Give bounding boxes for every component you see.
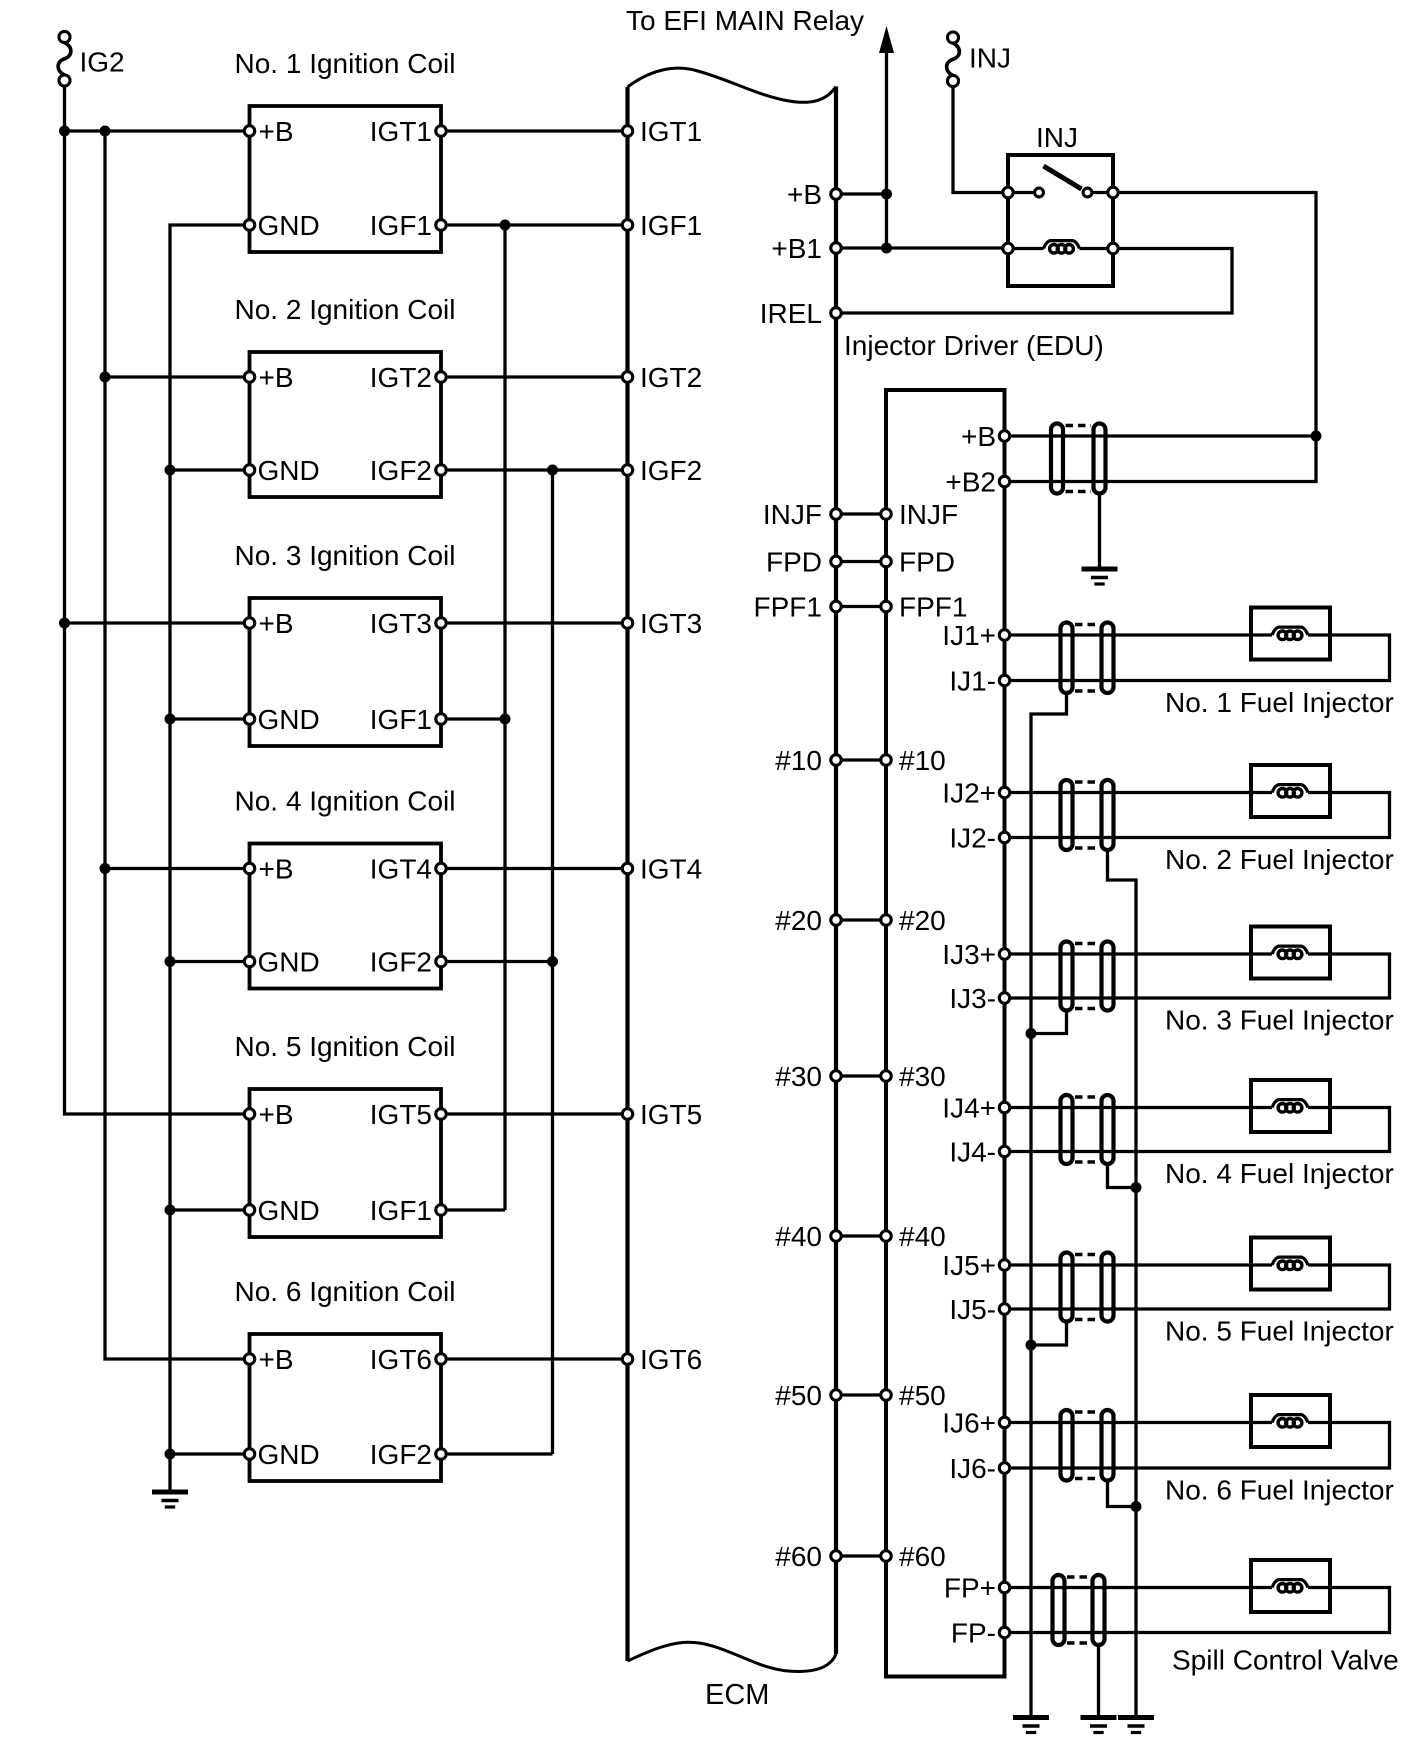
svg-text:IJ6+: IJ6+ — [942, 1408, 996, 1439]
wire ECM #10 to EDU — [836, 758, 886, 761]
node EDU pin FPF1 — [881, 592, 968, 623]
shielded cable for +B/+B2 — [1051, 424, 1106, 494]
svg-text:INJF: INJF — [763, 499, 822, 530]
svg-text:IGT5: IGT5 — [640, 1099, 702, 1130]
svg-text:+B: +B — [961, 421, 996, 452]
svg-text:+B1: +B1 — [771, 233, 822, 264]
node ECM pin #60 — [775, 1541, 841, 1572]
wire IGF2 coil No.6 to bus — [441, 1452, 553, 1455]
svg-text:#50: #50 — [899, 1380, 946, 1411]
node ECM pin #10 — [775, 745, 841, 776]
ignition coil No.1 box — [234, 48, 455, 252]
ground shield drain right — [1118, 1718, 1154, 1733]
svg-text:#10: #10 — [775, 745, 822, 776]
node EDU pin #40 — [881, 1221, 946, 1252]
shielded cable for IJ3+/IJ3- — [1061, 942, 1114, 1011]
junction dots +B/+B1 — [881, 189, 892, 254]
wire +B to No.3 coil — [65, 621, 250, 624]
wire IGF2 coil No.2 to ECM — [441, 468, 628, 471]
node EDU pin #20 — [881, 905, 946, 936]
wire IGF1 coil No.3 to bus — [441, 717, 505, 720]
svg-text:IREL: IREL — [760, 298, 822, 329]
fuel injector No.1 (No. 1 Fuel Injector) — [1165, 608, 1394, 719]
wire ECM FPF1 to EDU — [836, 605, 886, 608]
svg-text:+B2: +B2 — [945, 467, 996, 498]
node ECM pin IGT4 — [622, 854, 702, 885]
wire loop EDU IJ5+/IJ5- through fuel injector No.5 — [1005, 1263, 1273, 1266]
relay INJ — [1003, 122, 1118, 286]
wire IGT5 from coil No.5 to ECM — [441, 1112, 628, 1115]
svg-text:#50: #50 — [775, 1380, 822, 1411]
svg-text:IGF2: IGF2 — [640, 455, 702, 486]
node EDU pin FPD — [881, 547, 955, 578]
svg-text:IJ4+: IJ4+ — [942, 1093, 996, 1124]
wire IG2 bus A to No.1/3/5 coils — [65, 86, 250, 1114]
svg-text:ECM: ECM — [705, 1679, 769, 1711]
wire loop EDU IJ4+/IJ4- through fuel injector No.4 — [1005, 1106, 1273, 1109]
svg-text:+B: +B — [259, 1099, 294, 1130]
svg-text:No. 6 Fuel Injector: No. 6 Fuel Injector — [1165, 1475, 1394, 1506]
wire shield drain IJ4+ pair — [1108, 1164, 1137, 1188]
wire ECM #60 to EDU — [836, 1554, 886, 1557]
fuel injector No.2 (No. 2 Fuel Injector) — [1165, 765, 1394, 875]
node EDU pin #10 — [881, 745, 946, 776]
svg-text:IGF1: IGF1 — [640, 210, 702, 241]
svg-text:IGT3: IGT3 — [370, 608, 432, 639]
node ECM pin IGT5 — [622, 1099, 702, 1130]
node ECM pin IGF2 — [622, 455, 702, 486]
node ECM pin #30 — [775, 1061, 841, 1092]
svg-text:IGT1: IGT1 — [640, 116, 702, 147]
svg-text:IGF2: IGF2 — [370, 1439, 432, 1470]
wire loop EDU IJ1+/IJ1- through fuel injector No.1 — [1005, 633, 1273, 636]
ignition coil No.6 box — [234, 1276, 455, 1481]
svg-text:#10: #10 — [899, 745, 946, 776]
svg-text:INJF: INJF — [899, 499, 958, 530]
wire relay switch output down right side — [1005, 193, 1317, 482]
svg-text:IGT4: IGT4 — [640, 854, 702, 885]
wire GND of No.4 coil to GND bus — [170, 960, 250, 963]
fuel injector No.4 (No. 4 Fuel Injector) — [1165, 1080, 1394, 1189]
svg-text:IJ4-: IJ4- — [949, 1137, 996, 1168]
svg-text:GND: GND — [258, 947, 320, 978]
node ECM pin IGT3 — [622, 608, 702, 639]
svg-text:IGF1: IGF1 — [370, 1195, 432, 1226]
node EDU pin IJ3+ — [942, 939, 1009, 970]
svg-text:No. 2 Ignition Coil: No. 2 Ignition Coil — [234, 294, 455, 325]
shielded cable for IJ4+/IJ4- — [1061, 1095, 1114, 1164]
fuel injector No.5 (No. 5 Fuel Injector) — [1165, 1238, 1394, 1347]
wire GND of No.2 coil to GND bus — [170, 468, 250, 471]
node ECM pin FPF1 — [754, 592, 842, 623]
wire ECM FPD to EDU — [836, 560, 886, 563]
svg-text:+B: +B — [259, 608, 294, 639]
node EDU pin #50 — [881, 1380, 946, 1411]
node EDU pin IJ6+ — [942, 1408, 1009, 1439]
svg-text:IG2: IG2 — [80, 47, 125, 78]
svg-text:No. 1 Fuel Injector: No. 1 Fuel Injector — [1165, 687, 1394, 718]
node ECM pin IGT6 — [622, 1344, 702, 1375]
wire IGT3 from coil No.3 to ECM — [441, 621, 628, 624]
wire loop EDU IJ2+/IJ2- through fuel injector No.2 — [1005, 791, 1273, 794]
svg-text:FP+: FP+ — [944, 1573, 996, 1604]
svg-text:GND: GND — [258, 704, 320, 735]
svg-text:IGF1: IGF1 — [370, 704, 432, 735]
svg-text:FP-: FP- — [951, 1618, 996, 1649]
node ECM pin IREL — [760, 298, 841, 329]
node EDU pin IJ2+ — [942, 778, 1009, 809]
svg-text:To EFI MAIN Relay: To EFI MAIN Relay — [626, 5, 864, 36]
svg-text:No. 5 Ignition Coil: No. 5 Ignition Coil — [234, 1031, 455, 1062]
node EDU pin IJ5+ — [942, 1250, 1009, 1281]
svg-text:IJ2+: IJ2+ — [942, 778, 996, 809]
fuel injector No.6 (No. 6 Fuel Injector) — [1165, 1395, 1394, 1506]
wire IGF1 coil No.1 to ECM — [441, 223, 628, 226]
junction dots on shield drain buses — [1026, 1028, 1142, 1512]
shielded cable for IJ2+/IJ2- — [1061, 780, 1114, 850]
node EDU pin IJ4+ — [942, 1093, 1009, 1124]
node EDU pin IJ2- — [949, 823, 1009, 854]
wire shield drain IJ6+ pair — [1108, 1481, 1137, 1507]
svg-text:IJ3-: IJ3- — [949, 983, 996, 1014]
ground shield drain left — [1013, 1718, 1049, 1733]
svg-text:GND: GND — [258, 210, 320, 241]
ignition coil No.4 box — [234, 786, 455, 989]
ECM body (torn-edge band) — [628, 68, 837, 1711]
wire shield drain IJ5+ pair — [1031, 1322, 1067, 1346]
node ECM pin FPD — [766, 547, 841, 578]
node EDU pin +B — [961, 421, 1010, 452]
wire IGT6 from coil No.6 to ECM — [441, 1357, 628, 1360]
svg-text:GND: GND — [258, 1195, 320, 1226]
svg-text:#20: #20 — [899, 905, 946, 936]
svg-text:IGT3: IGT3 — [640, 608, 702, 639]
svg-text:No. 4 Ignition Coil: No. 4 Ignition Coil — [234, 786, 455, 817]
spill control valve (Spill Control Valve) — [1172, 1560, 1399, 1676]
wire +B feed bus B to No.2/4/6 coils — [105, 131, 250, 1359]
svg-text:Injector Driver (EDU): Injector Driver (EDU) — [844, 330, 1104, 361]
junction dot +B — [1311, 431, 1322, 442]
node ECM pin #20 — [775, 905, 841, 936]
svg-text:+B: +B — [259, 1344, 294, 1375]
node IG2 connector — [58, 32, 125, 87]
shielded cable for FP+/FP- — [1053, 1575, 1105, 1645]
wire shield drain to ground — [1098, 494, 1101, 570]
node ECM pin +B — [787, 179, 841, 210]
svg-text:IGT6: IGT6 — [370, 1344, 432, 1375]
svg-text:IGF2: IGF2 — [370, 947, 432, 978]
svg-text:IJ1+: IJ1+ — [942, 620, 996, 651]
node EDU pin IJ6- — [949, 1453, 1009, 1484]
svg-text:No. 1 Ignition Coil: No. 1 Ignition Coil — [234, 48, 455, 79]
node ECM pin +B1 — [771, 233, 841, 264]
wire IGT2 from coil No.2 to ECM — [441, 375, 628, 378]
node EDU pin #30 — [881, 1061, 946, 1092]
svg-text:+B: +B — [259, 116, 294, 147]
svg-text:FPD: FPD — [899, 547, 955, 578]
injector driver EDU box — [886, 390, 1005, 1677]
svg-text:+B: +B — [259, 854, 294, 885]
svg-text:IGF2: IGF2 — [370, 455, 432, 486]
wire ECM #20 to EDU — [836, 918, 886, 921]
svg-text:No. 6 Ignition Coil: No. 6 Ignition Coil — [234, 1276, 455, 1307]
svg-text:IJ1-: IJ1- — [949, 666, 996, 697]
node INJ fuse connector — [947, 32, 1011, 87]
wire IREL from relay coil to ECM — [836, 249, 1232, 314]
svg-text:No. 5 Fuel Injector: No. 5 Fuel Injector — [1165, 1316, 1394, 1347]
ignition coil No.5 box — [234, 1031, 455, 1237]
wire to EFI MAIN relay (arrow) — [879, 26, 894, 248]
wire +B to No.1 coil — [65, 129, 250, 132]
svg-text:#30: #30 — [775, 1061, 822, 1092]
shielded cable for IJ5+/IJ5- — [1061, 1253, 1114, 1322]
junction dots on +B buses — [59, 126, 111, 875]
terminal circles overlay (redraw above wires) — [59, 32, 1118, 1638]
svg-text:GND: GND — [258, 455, 320, 486]
svg-text:#60: #60 — [775, 1541, 822, 1572]
wire IGT1 from coil No.1 to ECM — [441, 129, 628, 132]
wire ECM +B to EFI MAIN relay line — [836, 192, 887, 195]
svg-text:FPF1: FPF1 — [754, 592, 822, 623]
wire ECM #50 to EDU — [836, 1393, 886, 1396]
ground shield drain FP — [1081, 1718, 1117, 1733]
svg-text:IGT2: IGT2 — [640, 362, 702, 393]
wire loop EDU IJ6+/IJ6- through fuel injector No.6 — [1005, 1421, 1273, 1424]
svg-text:IGT2: IGT2 — [370, 362, 432, 393]
svg-text:IGF1: IGF1 — [370, 210, 432, 241]
svg-text:INJ: INJ — [969, 43, 1011, 74]
svg-text:FPD: FPD — [766, 547, 822, 578]
junction dots on GND bus — [165, 465, 176, 1460]
svg-text:IJ3+: IJ3+ — [942, 939, 996, 970]
wire GND bus down left side — [170, 225, 250, 1492]
node EDU pin IJ1- — [949, 666, 1009, 697]
svg-text:IJ6-: IJ6- — [949, 1453, 996, 1484]
junction dots on IGF buses — [500, 220, 559, 968]
node ECM pin IGT1 — [622, 116, 702, 147]
node ECM pin INJF — [763, 499, 841, 530]
svg-text:GND: GND — [258, 1439, 320, 1470]
ground for ignition coils — [152, 1492, 188, 1507]
svg-text:+B: +B — [787, 179, 822, 210]
wire EDU +B to relay output — [1005, 434, 1317, 437]
ignition coil No.3 box — [234, 540, 455, 746]
svg-text:INJ: INJ — [1036, 122, 1078, 153]
wire loop EDU IJ3+/IJ3- through fuel injector No.3 — [1005, 952, 1273, 955]
wire shield drain IJ3+ pair — [1031, 1011, 1067, 1034]
wire ECM #40 to EDU — [836, 1234, 886, 1237]
svg-text:IGT6: IGT6 — [640, 1344, 702, 1375]
svg-text:#20: #20 — [775, 905, 822, 936]
node EDU pin IJ5- — [949, 1294, 1009, 1325]
wire shield drain IJ1+ pair — [1031, 693, 1067, 1718]
wire IGT4 from coil No.4 to ECM — [441, 867, 628, 870]
svg-text:No. 3 Fuel Injector: No. 3 Fuel Injector — [1165, 1005, 1394, 1036]
svg-text:IGT5: IGT5 — [370, 1099, 432, 1130]
node EDU pin IJ1+ — [942, 620, 1009, 651]
node EDU pin FP- — [951, 1618, 1010, 1649]
wire IGF2 bus — [551, 470, 554, 1454]
svg-text:#60: #60 — [899, 1541, 946, 1572]
wire IGF2 coil No.4 to bus — [441, 960, 553, 963]
wire shield drain FP+ pair to ground — [1097, 1645, 1100, 1718]
svg-text:No. 3 Ignition Coil: No. 3 Ignition Coil — [234, 540, 455, 571]
wire ECM INJF to EDU — [836, 512, 886, 515]
wire loop EDU FP+/FP- through spill control valve — [1005, 1586, 1273, 1589]
svg-text:No. 4 Fuel Injector: No. 4 Fuel Injector — [1165, 1158, 1394, 1189]
wire GND of No.6 coil to GND bus — [170, 1452, 250, 1455]
ground for +B shield — [1082, 569, 1118, 584]
wire shield drain IJ2+ pair — [1108, 850, 1137, 1718]
svg-text:Spill Control Valve: Spill Control Valve — [1172, 1645, 1399, 1676]
wire GND of No.5 coil to GND bus — [170, 1208, 250, 1211]
wire +B to No.4 coil — [105, 867, 250, 870]
wire IGF1 bus — [503, 225, 506, 1210]
node EDU pin +B2 — [945, 467, 1009, 498]
svg-text:No. 2 Fuel Injector: No. 2 Fuel Injector — [1165, 844, 1394, 875]
wire GND of No.3 coil to GND bus — [170, 717, 250, 720]
wire IGF1 coil No.5 to bus — [441, 1208, 505, 1211]
node ECM pin #40 — [775, 1221, 841, 1252]
svg-text:IGT1: IGT1 — [370, 116, 432, 147]
node ECM pin IGF1 — [622, 210, 702, 241]
shielded cable for IJ6+/IJ6- — [1061, 1410, 1114, 1481]
svg-text:FPF1: FPF1 — [899, 592, 967, 623]
wire INJ connector to relay switch — [953, 87, 1008, 193]
ignition coil No.2 box — [234, 294, 455, 497]
wire +B to No.2 coil — [105, 375, 250, 378]
svg-text:+B: +B — [259, 362, 294, 393]
node ECM pin #50 — [775, 1380, 841, 1411]
svg-text:IJ5-: IJ5- — [949, 1294, 996, 1325]
svg-text:IGT4: IGT4 — [370, 854, 432, 885]
node EDU pin IJ4- — [949, 1137, 1009, 1168]
node EDU pin IJ3- — [949, 983, 1009, 1014]
shielded cable for IJ1+/IJ1- — [1061, 623, 1114, 694]
node ECM pin IGT2 — [622, 362, 702, 393]
svg-text:#40: #40 — [899, 1221, 946, 1252]
fuel injector No.3 (No. 3 Fuel Injector) — [1165, 927, 1394, 1036]
wire ECM #30 to EDU — [836, 1074, 886, 1077]
svg-text:IJ2-: IJ2- — [949, 823, 996, 854]
svg-text:IJ5+: IJ5+ — [942, 1250, 996, 1281]
svg-text:#40: #40 — [775, 1221, 822, 1252]
svg-text:#30: #30 — [899, 1061, 946, 1092]
node EDU pin FP+ — [944, 1573, 1010, 1604]
node EDU pin #60 — [881, 1541, 946, 1572]
node EDU pin INJF — [881, 499, 958, 530]
wire ECM +B1 to INJ relay coil — [836, 246, 1008, 249]
